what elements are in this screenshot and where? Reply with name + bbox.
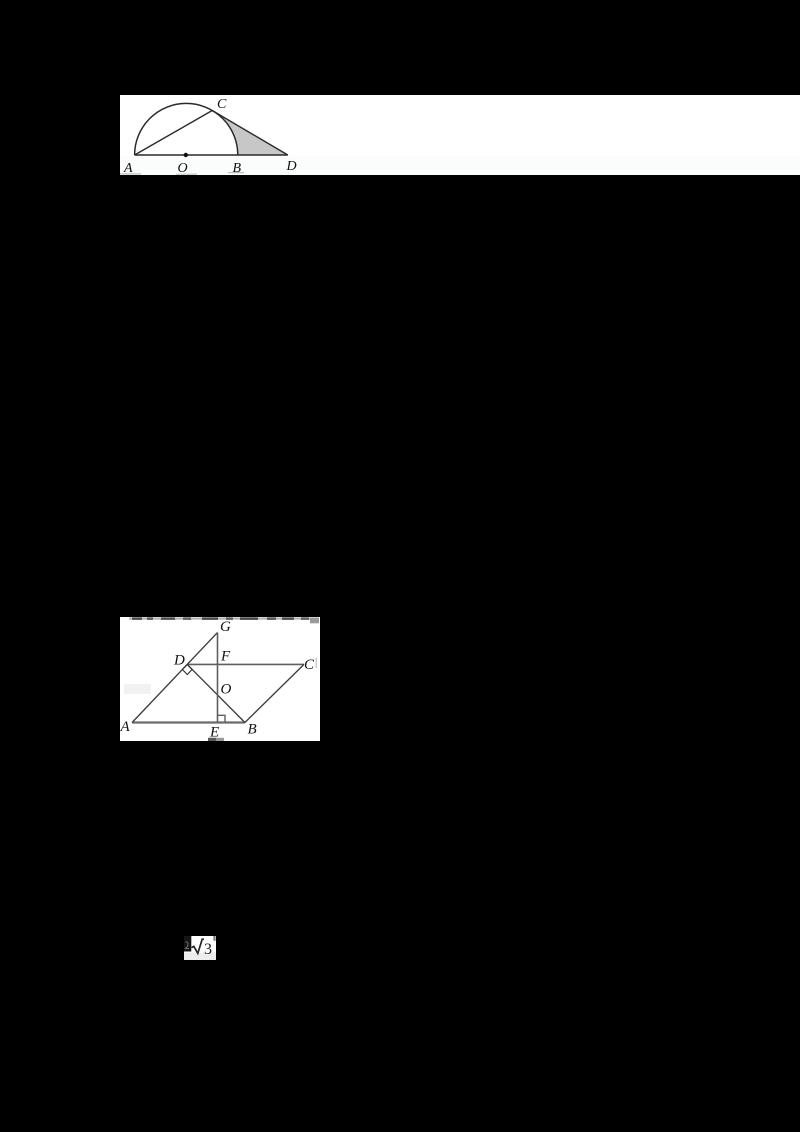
off-white bottom strip	[184, 953, 216, 961]
svg-text:O: O	[178, 161, 188, 175]
underline artifact A	[119, 173, 141, 174]
semicircle arc AB	[135, 103, 238, 155]
figure 1 white band	[120, 95, 800, 175]
line AG	[132, 633, 217, 723]
svg-text:A: A	[120, 719, 131, 735]
svg-text:B: B	[248, 722, 257, 738]
baseline AD	[135, 154, 288, 156]
top scan-noise strip	[129, 617, 319, 623]
line DC	[187, 663, 304, 665]
sqrt(3) patch	[184, 936, 216, 960]
radical sign	[192, 939, 204, 953]
svg-text:F: F	[220, 649, 231, 665]
vertical GE	[217, 633, 219, 723]
svg-text:O: O	[221, 682, 232, 698]
right-angle diamond at D	[182, 664, 192, 674]
faint left smudge	[124, 684, 151, 694]
svg-text:C: C	[304, 657, 315, 673]
chord AC	[135, 111, 213, 156]
svg-text:A: A	[123, 161, 133, 175]
svg-text:G: G	[220, 619, 231, 635]
line AB	[132, 721, 245, 723]
blob under E	[208, 738, 224, 741]
underline artifact O	[176, 174, 197, 175]
gray notch top-right	[213, 936, 215, 941]
dark left column with hidden glyph	[184, 936, 191, 952]
center dot O	[184, 153, 188, 157]
faint prime tick after C	[316, 658, 318, 668]
svg-text:3: 3	[204, 941, 212, 958]
figure 2 white rect	[120, 617, 320, 741]
line BC	[245, 664, 304, 722]
svg-text:D: D	[286, 159, 297, 174]
right-angle square at E	[218, 715, 226, 722]
shaded segment CBD	[212, 111, 288, 156]
svg-text:D: D	[173, 653, 185, 669]
underline artifact B	[228, 172, 244, 173]
diagonal DB	[187, 664, 245, 722]
off-white lower strip	[120, 156, 800, 175]
svg-text:C: C	[217, 97, 227, 112]
tangent CD	[212, 111, 288, 156]
